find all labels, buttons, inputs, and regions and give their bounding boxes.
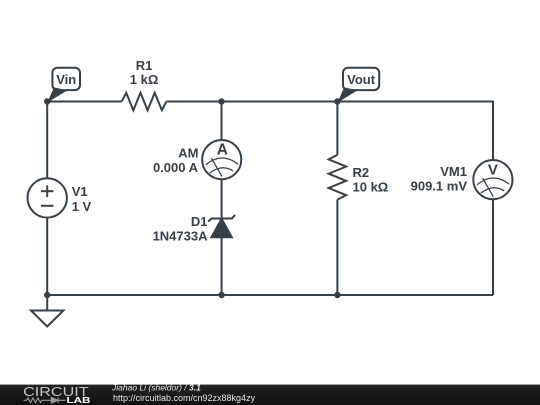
logo wire art [24, 397, 66, 403]
svg-text:LAB: LAB [67, 396, 91, 405]
svg-text:D1: D1 [191, 214, 208, 229]
svg-text:1N4733A: 1N4733A [153, 228, 209, 243]
node dot ammeter top [218, 98, 224, 104]
svg-text:A: A [217, 142, 228, 159]
svg-text:R1: R1 [136, 58, 153, 73]
svg-text:VM1: VM1 [440, 164, 467, 179]
ammeter AM circle [202, 140, 241, 179]
wire voltmeter to bottom-right corner [492, 199, 494, 295]
svg-text:http://circuitlab.com/cn92zx88: http://circuitlab.com/cn92zx88kg4zy [113, 393, 256, 403]
zener diode D1 triangle [211, 219, 231, 237]
wire diode to bottom rail [221, 237, 223, 295]
wire left rail upper (Vin node to V1) [46, 102, 48, 179]
svg-text:AM: AM [178, 145, 198, 160]
resistor R2 zigzag [329, 155, 347, 200]
svg-text:Vout: Vout [347, 72, 376, 87]
zener diode D1 cathode bar [208, 215, 235, 222]
wire ammeter to diode [221, 179, 223, 218]
svg-text:Vin: Vin [56, 72, 76, 87]
svg-text:R2: R2 [353, 165, 370, 180]
svg-text:10 kΩ: 10 kΩ [353, 180, 389, 195]
svg-text:1 V: 1 V [72, 199, 92, 214]
ground symbol [31, 311, 64, 327]
V1 minus sign [41, 205, 54, 207]
wire ammeter branch top [221, 102, 223, 141]
voltage source V1 circle [28, 178, 67, 217]
wire top rail left (Vin node to R1) [47, 101, 122, 103]
node label Vout box [343, 68, 379, 90]
wire top rail right (R1 to top-right corner) [166, 102, 493, 161]
voltmeter gauge arcs and needle [477, 178, 509, 197]
node dot ammeter bottom [218, 292, 224, 298]
Vout label tail [337, 87, 357, 102]
svg-text:V: V [488, 162, 498, 179]
V1 plus sign [41, 190, 54, 192]
svg-text:909.1 mV: 909.1 mV [411, 179, 468, 194]
svg-text:0.000 A: 0.000 A [153, 160, 199, 175]
wire ground stub [46, 295, 48, 311]
resistor R1 zigzag [122, 93, 167, 111]
node dot Vin [44, 98, 50, 104]
ammeter gauge arcs and needle [206, 158, 238, 177]
Vin label tail [47, 87, 67, 102]
wire R2 branch top [336, 102, 338, 155]
node dot Vout [334, 98, 340, 104]
wire left rail lower (V1 to ground node) [46, 218, 48, 295]
node dot ground [44, 292, 50, 298]
voltmeter VM1 circle [473, 160, 512, 199]
svg-text:1 kΩ: 1 kΩ [130, 72, 159, 87]
svg-text:V1: V1 [72, 184, 88, 199]
svg-text:Jiahao Li (sheldor) / 3.1: Jiahao Li (sheldor) / 3.1 [111, 383, 201, 393]
node label Vin box [52, 68, 80, 90]
wire bottom rail [47, 294, 493, 296]
wire R2 to bottom rail [336, 200, 338, 295]
node dot R2 bottom [334, 292, 340, 298]
footer bar [0, 385, 540, 405]
